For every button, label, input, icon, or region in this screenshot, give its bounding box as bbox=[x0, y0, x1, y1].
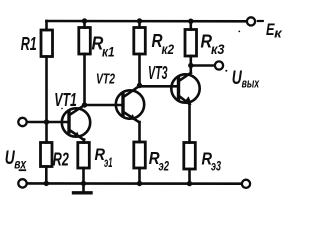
wire input to VT1 base bbox=[27, 121, 69, 124]
terminal input bottom bbox=[18, 179, 26, 187]
wire R2 bottom to ground rail bbox=[45, 167, 48, 184]
wire Re1 bottom to ground rail bbox=[82, 168, 85, 183]
node bottom rail junction Re3 bbox=[187, 181, 192, 186]
node top rail junction 3 bbox=[188, 19, 193, 24]
resistor Re1 bbox=[78, 143, 90, 169]
terminal output bbox=[215, 61, 223, 69]
node bottom rail junction Re2 bbox=[137, 181, 142, 186]
svg-text:к2: к2 bbox=[162, 41, 175, 57]
node input base junction bbox=[44, 119, 49, 124]
node VT1 collector junction bbox=[82, 102, 87, 107]
svg-text:R1: R1 bbox=[21, 33, 37, 54]
resistor R1 bbox=[41, 30, 53, 57]
wire Rk3 top stub bbox=[190, 21, 193, 30]
wire Re2 bottom to ground rail bbox=[138, 168, 141, 183]
minus sign before Ek bbox=[258, 20, 263, 22]
transistor VT3 bbox=[171, 73, 199, 143]
label Uvx underline bbox=[19, 169, 27, 171]
svg-text:к1: к1 bbox=[102, 43, 115, 59]
resistor Rk1 bbox=[79, 28, 91, 55]
resistor Rk2 bbox=[134, 28, 146, 55]
node bottom rail junction Re1 bbox=[81, 181, 86, 186]
wire top supply rail bbox=[47, 20, 247, 23]
speck near output terminal bbox=[225, 70, 227, 72]
wire Rk3 bottom to VT3 collector bbox=[190, 56, 193, 73]
transistor VT1 bbox=[62, 105, 90, 143]
svg-text:VT1: VT1 bbox=[54, 90, 77, 110]
terminal bottom right bbox=[242, 180, 250, 188]
speck near Ek bbox=[238, 31, 240, 33]
svg-text:вх: вх bbox=[14, 155, 27, 171]
wire Rk2 top stub bbox=[138, 21, 141, 28]
svg-text:вых: вых bbox=[242, 75, 260, 90]
svg-text:э2: э2 bbox=[159, 158, 170, 174]
transistor VT2 bbox=[116, 86, 144, 142]
speck below VT1 label bbox=[61, 108, 63, 110]
resistor Rk3 bbox=[185, 30, 197, 57]
terminal input top bbox=[18, 118, 26, 126]
resistor R2 bbox=[41, 143, 53, 167]
wire VT1 collector junction to VT2 base bbox=[85, 104, 123, 107]
node top rail junction 2 bbox=[137, 18, 142, 23]
node bottom rail junction R2 bbox=[44, 181, 49, 186]
node VT3 collector output tap bbox=[188, 63, 193, 68]
node VT2 collector junction bbox=[137, 83, 142, 88]
svg-text:VT3: VT3 bbox=[148, 63, 168, 83]
wire Rk1 top stub bbox=[83, 21, 86, 28]
wire Rk2 bottom to VT2 collector junction bbox=[138, 54, 141, 86]
svg-text:R2: R2 bbox=[53, 150, 69, 170]
svg-text:к3: к3 bbox=[211, 41, 225, 57]
wire VT3 collector tap to output terminal bbox=[191, 64, 215, 67]
wire R1 bottom to input junction and down to R2 bbox=[45, 57, 48, 143]
terminal Ek supply bbox=[247, 17, 255, 25]
svg-text:э1: э1 bbox=[104, 155, 113, 170]
wire bottom ground rail bbox=[27, 182, 242, 185]
wire VT2 collector junction to VT3 base bbox=[140, 85, 178, 88]
svg-text:VT2: VT2 bbox=[96, 71, 115, 88]
resistor Re3 bbox=[184, 143, 196, 170]
ground bbox=[74, 183, 92, 192]
wire Re3 bottom to ground rail bbox=[188, 169, 191, 183]
resistor Re2 bbox=[134, 142, 146, 168]
svg-text:э3: э3 bbox=[211, 157, 221, 173]
wire R1 top stub bbox=[45, 21, 48, 30]
wire Rk1 bottom to VT1 collector junction bbox=[83, 54, 86, 105]
node top rail junction 1 bbox=[82, 18, 87, 23]
